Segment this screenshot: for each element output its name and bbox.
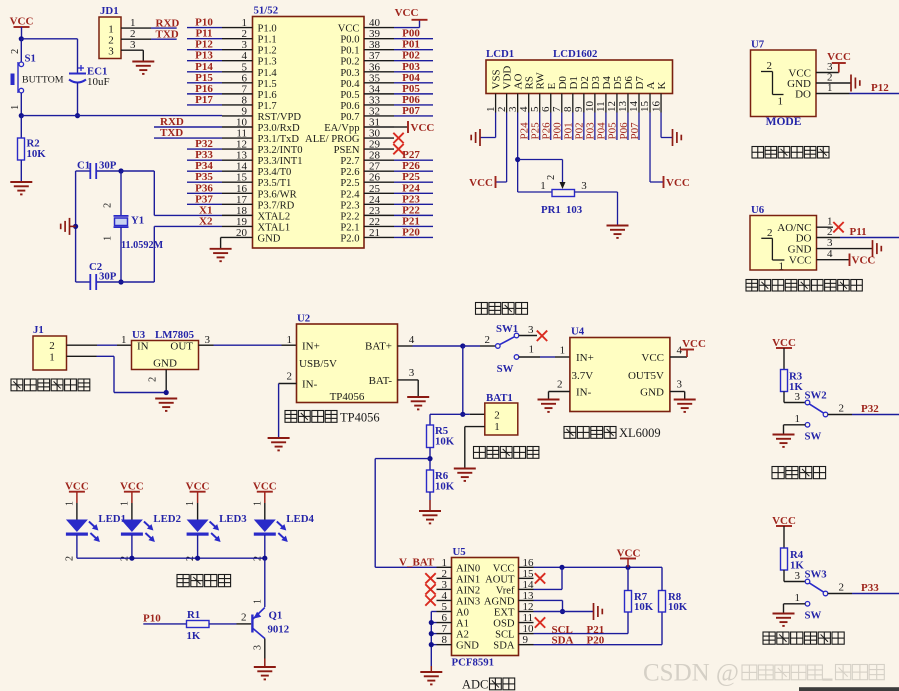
svg-text:P3.6/WR: P3.6/WR	[258, 189, 298, 200]
svg-text:P11: P11	[850, 226, 867, 238]
designator BAT1	[486, 392, 513, 404]
MCU U1 51/52 body	[253, 17, 365, 249]
svg-text:VCC: VCC	[493, 563, 515, 574]
svg-text:AIN1: AIN1	[456, 574, 480, 585]
value 10K R7	[634, 601, 654, 613]
svg-text:U4: U4	[571, 326, 585, 338]
wire net P36	[187, 192, 222, 194]
svg-text:VCC: VCC	[10, 16, 34, 28]
svg-text:PR1: PR1	[541, 204, 561, 216]
net label P10	[143, 613, 161, 625]
U3 pin3 wire to U2	[199, 344, 297, 346]
wire net P11	[187, 38, 222, 40]
wire R5 to R6	[429, 448, 431, 471]
svg-text:1: 1	[778, 96, 784, 108]
svg-text:10uF: 10uF	[87, 76, 110, 88]
pin-number 4 U4	[677, 345, 683, 357]
value 11.0592M	[121, 240, 164, 251]
node junction U5 pin7	[429, 631, 434, 636]
svg-text:30P: 30P	[99, 160, 117, 172]
net label P35	[195, 171, 213, 183]
ground SW2	[773, 435, 795, 447]
svg-text:11.0592M: 11.0592M	[121, 240, 164, 251]
ground BAT1	[454, 469, 476, 481]
svg-text:C1: C1	[77, 160, 90, 172]
pushbutton S1	[11, 62, 24, 93]
charger U2 body	[297, 324, 398, 403]
svg-text:BAT1: BAT1	[486, 392, 513, 404]
wire VCC to S1 pin2	[20, 39, 22, 62]
U4 pin names	[572, 352, 665, 399]
wire U5 pin10 SCL	[534, 612, 629, 634]
net label TXD	[160, 127, 183, 139]
svg-text:IN+: IN+	[302, 341, 320, 353]
wire AO to PR1 pin1	[518, 191, 552, 193]
wire U5 pin12 EXT	[534, 611, 594, 613]
pin-number 2 Q1	[241, 612, 247, 624]
net label P14	[195, 61, 213, 73]
svg-text:1: 1	[253, 599, 264, 604]
svg-text:P3.7/RD: P3.7/RD	[258, 200, 295, 211]
svg-text:2: 2	[10, 49, 21, 54]
svg-text:VCC: VCC	[253, 481, 277, 493]
LCD pin15 wire to VCC	[650, 113, 663, 183]
node junction BAT+ / SW1	[460, 343, 465, 348]
svg-text:P2.1: P2.1	[340, 222, 359, 233]
BAT1 pin1 wire	[465, 427, 485, 468]
pin-number 1 U4	[560, 345, 566, 357]
svg-text:BAT+: BAT+	[365, 341, 392, 353]
wire LED bus	[77, 557, 265, 559]
U7 pin2 wire	[816, 82, 851, 84]
wire net P22	[394, 214, 433, 216]
svg-text:P07: P07	[402, 105, 420, 117]
pin-number 1 Y1	[103, 236, 114, 241]
label SW at SW3	[805, 610, 822, 622]
U4 pin3 wire	[670, 392, 685, 400]
LCD pin3 wire down	[517, 113, 519, 193]
pin-number 3 U7	[827, 61, 833, 73]
wire net P33	[187, 159, 222, 161]
no-connect X U5 pin4	[425, 595, 435, 605]
net label RXD at JD1	[156, 18, 180, 30]
label MODE	[766, 116, 802, 128]
svg-text:P0.7: P0.7	[340, 112, 359, 123]
svg-text:2: 2	[148, 377, 159, 382]
power VCC R4	[772, 515, 796, 548]
net label P00	[402, 28, 420, 40]
wire net P15	[187, 82, 222, 84]
svg-text:P1.2: P1.2	[258, 46, 277, 57]
caption lighting circuit	[177, 575, 231, 587]
net label P24	[402, 182, 420, 194]
PR1 wiper arrow	[560, 182, 566, 189]
svg-text:3: 3	[409, 367, 415, 379]
designator U4	[571, 326, 585, 338]
svg-text:P3.0/RxD: P3.0/RxD	[258, 123, 300, 134]
svg-text:IN-: IN-	[302, 379, 318, 391]
net label P04	[402, 72, 420, 84]
resistor R5	[427, 425, 434, 448]
svg-text:P1.1: P1.1	[258, 35, 277, 46]
svg-text:LED2: LED2	[153, 513, 181, 525]
MCU designator 51/52	[254, 5, 279, 17]
svg-text:P3.3/INT1: P3.3/INT1	[258, 156, 303, 167]
ground R6	[419, 511, 441, 523]
svg-text:3: 3	[795, 570, 801, 582]
no-connect X SW1 pin3	[537, 331, 547, 341]
svg-text:P1.6: P1.6	[258, 90, 277, 101]
svg-text:3: 3	[108, 45, 114, 57]
svg-text:P0.2: P0.2	[340, 57, 359, 68]
SW3 pin2 wire P33	[828, 593, 899, 595]
svg-text:ALE/ PROG: ALE/ PROG	[305, 134, 360, 145]
LED3 pin2 wire	[185, 535, 198, 561]
LCD pin1 wire to ground	[480, 113, 496, 138]
capacitor EC1	[69, 65, 86, 83]
pin-number 3 Q1	[253, 645, 264, 650]
designator EC1	[87, 66, 107, 78]
booster U4 body	[570, 338, 670, 412]
svg-text:1: 1	[64, 501, 75, 506]
svg-text:VCC: VCC	[186, 481, 210, 493]
net label P11	[850, 226, 867, 238]
wire X1 to MCU pin18	[154, 214, 222, 216]
svg-text:X2: X2	[199, 215, 213, 227]
Q1 emitter wire	[264, 639, 266, 667]
svg-text:P20: P20	[587, 635, 605, 647]
svg-text:P0.3: P0.3	[340, 68, 359, 79]
svg-text:3: 3	[795, 391, 801, 403]
svg-text:CSDN @: CSDN @	[643, 660, 739, 687]
wire C1 left to C2 left	[75, 171, 77, 282]
svg-text:P3.1/TxD: P3.1/TxD	[258, 134, 300, 145]
U4 pin4 wire VCC	[670, 356, 687, 358]
wire R3 to SW2	[784, 392, 805, 403]
ground Q1	[254, 667, 276, 679]
svg-text:ADC: ADC	[462, 678, 488, 691]
svg-text:P3.2/INT0: P3.2/INT0	[258, 145, 303, 156]
svg-text:P07: P07	[629, 122, 641, 140]
node junction U5 pin8	[429, 642, 434, 647]
node junction LED4	[262, 556, 267, 561]
svg-text:P2.4: P2.4	[340, 189, 360, 200]
svg-text:VCC: VCC	[338, 24, 360, 35]
svg-text:A2: A2	[456, 630, 469, 641]
svg-text:3: 3	[581, 180, 587, 192]
pin-number 3 PR1	[581, 180, 587, 192]
ground U2 pin3	[407, 397, 429, 409]
pin-number 1 U3	[121, 334, 127, 346]
SW2 pin1 wire	[784, 423, 810, 435]
caption manual light switch	[763, 632, 844, 644]
svg-text:1: 1	[529, 344, 535, 356]
wire net P02	[394, 60, 433, 62]
net label P21	[587, 624, 605, 636]
net label RXD	[160, 116, 184, 128]
pin-number 2 of S1	[10, 49, 21, 54]
svg-text:P3.5/T1: P3.5/T1	[258, 178, 292, 189]
svg-text:VCC: VCC	[469, 177, 493, 189]
value 10K R8	[668, 601, 688, 613]
U6 inside numbers	[767, 227, 784, 273]
svg-text:P2.0: P2.0	[340, 233, 359, 244]
svg-text:103: 103	[566, 204, 583, 216]
wire net P23	[394, 203, 433, 205]
svg-text:4: 4	[827, 248, 833, 260]
svg-text:U7: U7	[751, 39, 765, 51]
pin-number 4 U2	[409, 334, 415, 346]
value 30P C1	[99, 160, 117, 172]
JD1 inside numbers	[108, 23, 114, 57]
svg-text:S1: S1	[25, 53, 36, 65]
wire net P25	[394, 181, 433, 183]
ground U4 pin2	[538, 400, 560, 412]
wire U5 pin13 AGND	[534, 600, 563, 611]
ground U3	[155, 399, 177, 411]
svg-text:1K: 1K	[187, 630, 201, 642]
svg-text:3: 3	[253, 645, 264, 650]
ground U6 pin3 sideways	[873, 240, 882, 257]
svg-text:LED3: LED3	[219, 513, 247, 525]
svg-text:EA/Vpp: EA/Vpp	[324, 123, 359, 134]
net label P20	[587, 635, 605, 647]
caption light sensor module interface	[746, 280, 862, 292]
svg-text:AIN0: AIN0	[456, 563, 480, 574]
svg-text:1: 1	[540, 180, 546, 192]
power VCC U6 pin4	[850, 254, 876, 267]
svg-text:U6: U6	[751, 204, 765, 216]
designator R3	[789, 371, 803, 383]
U4 pin2 wire	[549, 392, 570, 400]
net label P16	[195, 83, 213, 95]
LED4 pin2 wire	[252, 535, 265, 561]
wire R4 to SW3	[784, 570, 805, 582]
designator LED1	[98, 513, 126, 525]
svg-text:P0.5: P0.5	[340, 90, 359, 101]
caption solar panel interface	[11, 379, 90, 391]
ground MCU pin20	[210, 249, 232, 261]
wire net P27	[394, 159, 433, 161]
svg-text:XL6009: XL6009	[619, 426, 661, 440]
svg-text:VCC: VCC	[641, 352, 664, 364]
no-connect X U6 pin1	[833, 222, 843, 232]
svg-text:LCD1602: LCD1602	[553, 48, 597, 60]
net label P20	[402, 226, 420, 238]
svg-text:SW: SW	[805, 610, 822, 622]
svg-text:IN+: IN+	[576, 352, 594, 364]
wire net P13	[187, 60, 222, 62]
svg-text:P0.1: P0.1	[340, 46, 359, 57]
power VCC R3	[772, 337, 796, 370]
svg-text:BUTTOM: BUTTOM	[22, 75, 64, 86]
designator LCD1	[486, 48, 514, 60]
svg-text:EXT: EXT	[494, 608, 515, 619]
svg-text:3: 3	[528, 324, 534, 336]
ground R2	[10, 182, 32, 194]
svg-text:A0: A0	[456, 608, 469, 619]
net label X2	[199, 215, 213, 227]
pin-number 2 SW3	[839, 582, 845, 594]
svg-text:OUT5V: OUT5V	[628, 370, 664, 382]
net label P36	[195, 182, 213, 194]
value 9012	[268, 624, 290, 636]
wire net P04	[394, 82, 433, 84]
watermark CSDN	[643, 660, 884, 687]
svg-text:3: 3	[205, 334, 211, 346]
pin-number 1 SW1	[529, 344, 535, 356]
ground PR1	[607, 226, 629, 238]
LCD pin2 wire to VCC	[496, 113, 507, 183]
pin-number 1 of S1	[10, 105, 21, 110]
svg-text:P2.3: P2.3	[340, 200, 359, 211]
svg-text:PCF8591: PCF8591	[452, 657, 495, 669]
net label P13	[195, 50, 213, 62]
caption booster module XL6009	[564, 426, 661, 440]
pin-number 2 PR1	[546, 175, 557, 180]
pin-number 3 SW2	[795, 391, 801, 403]
value 1K R3	[789, 381, 803, 393]
wire U5 pin9 SDA	[534, 612, 663, 645]
designator LED4	[286, 513, 314, 525]
svg-text:2: 2	[546, 175, 557, 180]
svg-text:51/52: 51/52	[254, 5, 279, 17]
wire net P05	[394, 93, 433, 95]
value 10K R6	[435, 481, 455, 493]
pin-number 4 U6	[827, 248, 833, 260]
wire net P06	[394, 104, 433, 106]
value LCD1602	[553, 48, 597, 60]
power VCC U4	[680, 338, 706, 357]
net label P33	[861, 582, 879, 594]
svg-text:USB/5V: USB/5V	[299, 358, 337, 370]
net label P12	[871, 82, 889, 94]
pin-number 3 U6	[827, 237, 833, 249]
svg-text:30P: 30P	[99, 271, 117, 283]
wire AO to PR1 wiper	[518, 160, 563, 185]
power VCC top-left	[10, 16, 34, 39]
node junction LED2	[129, 556, 134, 561]
U6 pin3 wire	[817, 248, 873, 250]
LCD pin16 wire to ground	[661, 113, 672, 138]
node junction LED3	[195, 556, 200, 561]
node junction VCC/S1	[19, 36, 24, 41]
LCD pins 1-16	[485, 94, 662, 113]
svg-text:2: 2	[485, 334, 491, 346]
ground JD1 pin3	[132, 62, 154, 74]
designator PCF8591	[452, 657, 495, 669]
wire net TXD to MCU pin11	[154, 137, 222, 139]
svg-text:VCC: VCC	[666, 177, 690, 189]
pin-number 2 SW1	[485, 334, 491, 346]
svg-text:8: 8	[442, 634, 448, 646]
svg-text:P2.7: P2.7	[340, 156, 359, 167]
pin-number 1 U2	[287, 334, 293, 346]
connector JD1 body	[99, 17, 121, 59]
switch SW2	[805, 400, 828, 417]
node junction AGND/EXT	[560, 609, 565, 614]
svg-text:1: 1	[10, 105, 21, 110]
pin-number 3 JD1	[130, 39, 136, 51]
J1 pin1 wire	[67, 356, 167, 392]
power VCC MCU pin40	[395, 7, 428, 20]
wire U5 pins5-8 bus	[431, 612, 436, 667]
switch SW1 pin2 wire	[463, 345, 496, 347]
designator SW2	[805, 390, 827, 402]
LED LED3	[187, 520, 221, 543]
caption sound module interface	[752, 147, 829, 159]
svg-text:16: 16	[650, 101, 662, 113]
designator U3	[132, 329, 146, 341]
net label P32	[195, 138, 213, 150]
U6 bracket	[761, 238, 784, 260]
U6 pin2 wire P11	[817, 237, 899, 239]
wire BAT+ to R5	[430, 414, 463, 425]
svg-text:P20: P20	[402, 226, 420, 238]
svg-text:2: 2	[287, 371, 293, 383]
svg-text:10K: 10K	[435, 436, 455, 448]
designator R6	[435, 470, 449, 482]
resistor R6	[427, 470, 434, 492]
caption ADC chip	[462, 678, 515, 691]
wire net P35	[187, 181, 222, 183]
svg-text:TXD: TXD	[160, 127, 183, 139]
wire C2 to X2 bend	[121, 226, 154, 282]
pin-number 2 JD1	[130, 28, 136, 40]
svg-text:1: 1	[252, 501, 263, 506]
potentiometer PR1	[552, 190, 575, 197]
designator R2	[27, 138, 40, 150]
pin-number 2 SW2	[839, 403, 845, 415]
switch SW3	[805, 579, 828, 596]
svg-text:1: 1	[560, 345, 566, 357]
capacitor C2	[76, 274, 121, 290]
wire X2 to MCU pin19	[154, 225, 222, 227]
svg-text:2: 2	[494, 410, 500, 422]
svg-text:2: 2	[103, 203, 114, 208]
node junction pin16/R7	[625, 565, 630, 570]
svg-text:3.7V: 3.7V	[572, 370, 594, 382]
svg-text:Vref: Vref	[496, 585, 515, 596]
svg-text:9: 9	[523, 634, 529, 646]
svg-text:P0.4: P0.4	[340, 79, 360, 90]
wire net P21	[394, 225, 433, 227]
svg-text:P0.6: P0.6	[340, 101, 359, 112]
svg-text:SCL: SCL	[495, 630, 514, 641]
power VCC LCD pin15	[664, 176, 690, 189]
pin-number 1 Q1	[253, 599, 264, 604]
LED1 pin2 wire	[64, 535, 77, 561]
resistor R1	[187, 621, 210, 628]
svg-text:1: 1	[795, 413, 801, 425]
wire net P16	[187, 93, 222, 95]
svg-text:XTAL1: XTAL1	[258, 222, 291, 233]
svg-text:P0.0: P0.0	[340, 35, 359, 46]
power VCC MCU pin31	[408, 121, 434, 134]
svg-text:1: 1	[119, 501, 130, 506]
wire U5 pin16 VCC	[534, 566, 663, 568]
value 10K	[27, 148, 47, 160]
node junction U3 ground	[164, 390, 169, 395]
designator U7	[751, 39, 765, 51]
svg-text:R1: R1	[187, 609, 200, 621]
svg-text:2: 2	[767, 227, 773, 239]
BAT1 inside numbers	[494, 410, 500, 434]
connector J1 body	[33, 336, 67, 370]
net label V_BAT	[399, 557, 435, 569]
wire net P32	[187, 148, 222, 150]
svg-text:XTAL2: XTAL2	[258, 211, 291, 222]
